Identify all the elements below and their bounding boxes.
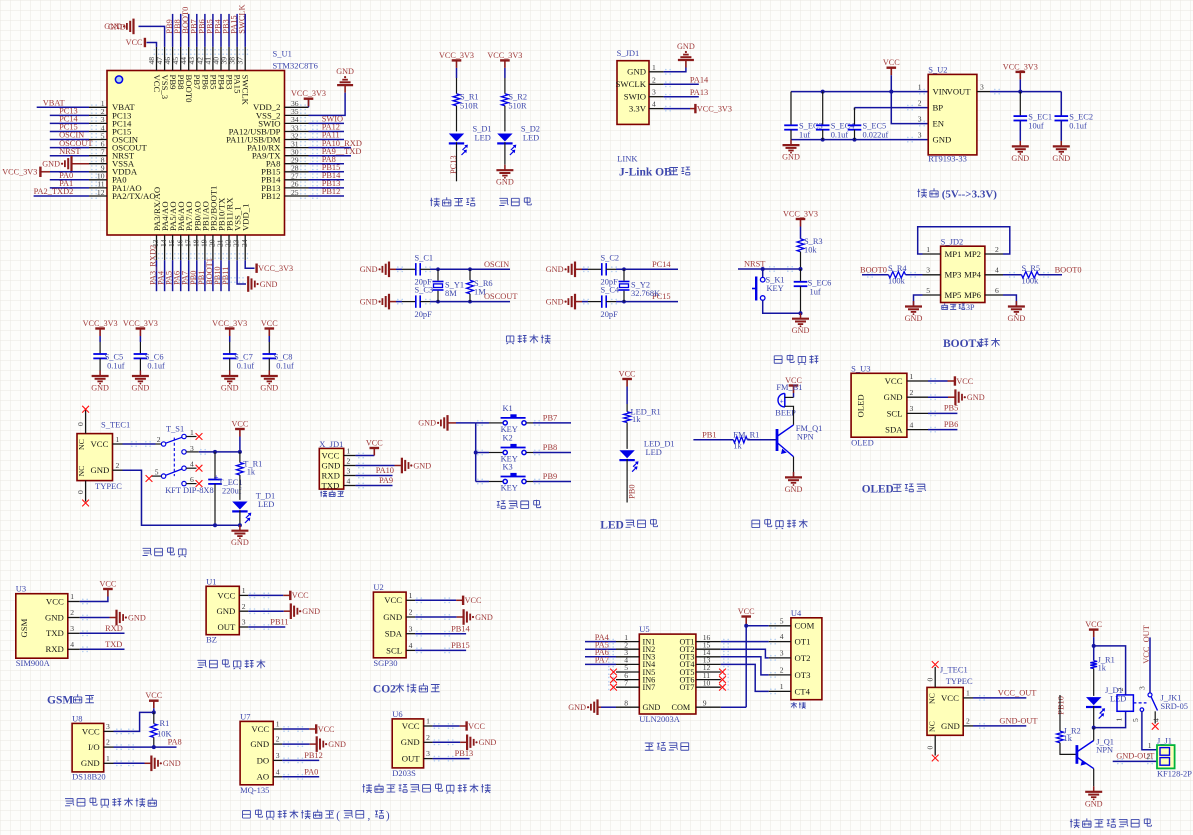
wire T_S1 pin3 to VCC rail xyxy=(186,451,199,453)
wire S_JD1 pin1 to GND xyxy=(664,68,686,72)
ground left of S_C1 xyxy=(388,262,390,278)
svg-text:GSM: GSM xyxy=(47,695,73,707)
pin 1 (IN1) of U5 xyxy=(616,641,639,643)
wire S_U3 pin4, net PB6 xyxy=(928,429,957,431)
svg-text:S_C4: S_C4 xyxy=(601,286,620,295)
wire U2 pin2 to GND xyxy=(415,616,457,618)
svg-text:LED: LED xyxy=(1110,695,1126,704)
wire from pin 43 of S_U1 top xyxy=(196,14,198,47)
svg-text:0.1uf: 0.1uf xyxy=(1069,121,1087,130)
svg-text:I/O: I/O xyxy=(88,742,100,752)
svg-text:VCC: VCC xyxy=(126,38,143,47)
power port VCC above S_C8 xyxy=(265,327,275,329)
svg-text:3: 3 xyxy=(780,649,784,658)
svg-text:PA0: PA0 xyxy=(304,767,318,776)
svg-text:GND: GND xyxy=(933,135,952,145)
junction S_EC5 bottom xyxy=(853,138,857,142)
wire rail to key K3 xyxy=(476,481,489,483)
svg-text:D203S: D203S xyxy=(392,768,416,778)
wire to U5 IN2 xyxy=(585,648,616,650)
svg-text:PB14: PB14 xyxy=(451,624,470,633)
wire from pin 40 of S_U1 top xyxy=(220,14,222,47)
wire U6 pin3, net PB13 xyxy=(433,758,470,760)
pin 22 (PB11/RX) of S_U1, bottom side xyxy=(228,235,230,260)
power port VCC at S_U1 pin 48 xyxy=(144,38,146,47)
svg-text:25: 25 xyxy=(291,188,299,197)
svg-text:VCC: VCC xyxy=(322,450,340,460)
component box S_U3 OLED xyxy=(851,373,907,437)
wire LED cathode to ground xyxy=(504,142,506,165)
svg-text:1M: 1M xyxy=(474,287,486,296)
pin 1 (VCC) of J_TEC1 xyxy=(963,697,973,699)
power port VCC_3V3 at S_U1 pin 9 VDDA xyxy=(39,167,41,177)
wire S_EC5 top to S_U2 BP pin2 xyxy=(854,108,856,110)
wire T_R1 to LED T_D1 xyxy=(239,475,241,500)
svg-text:2: 2 xyxy=(995,245,999,254)
wire U5 pin8 to GND xyxy=(601,706,616,708)
pin 36 (VDD_2) of S_U1, right side xyxy=(285,106,309,108)
svg-text:OLED: OLED xyxy=(856,394,866,417)
wire from pin 34 of S_U1 xyxy=(309,122,345,124)
svg-text:S_R2: S_R2 xyxy=(508,93,527,102)
capacitor S_C8 0.1uf xyxy=(263,353,277,355)
pin-1 indicator circle of S_U1 xyxy=(115,76,122,83)
svg-text:): ) xyxy=(386,810,390,822)
svg-text:4: 4 xyxy=(995,266,999,275)
resistor FM_R1 1k xyxy=(733,437,747,443)
svg-text:OT3: OT3 xyxy=(795,670,811,680)
power port VCC above R1 xyxy=(149,700,159,702)
wire S_C2 to PC14 xyxy=(606,268,616,270)
svg-text:VCC: VCC xyxy=(465,596,482,605)
svg-text:510R: 510R xyxy=(508,102,527,111)
svg-text:3: 3 xyxy=(106,722,110,731)
svg-text:10uf: 10uf xyxy=(1028,121,1044,130)
ground at S_U1 pin 8 VSSA xyxy=(70,156,72,172)
wire from pin 19 of S_U1 bottom xyxy=(204,260,206,291)
wire from pin 32 of S_U1 xyxy=(309,139,345,141)
pin 15 (PA5/AO) of S_U1, bottom side xyxy=(172,235,174,260)
svg-text:OUT: OUT xyxy=(217,622,236,632)
no-ERC cross at U5 OT6 xyxy=(719,676,726,683)
bottom ground rail of supply xyxy=(791,139,928,141)
svg-text:PB6: PB6 xyxy=(944,420,958,429)
svg-text:GND: GND xyxy=(941,721,960,731)
pin 3 (MP3) of S_JD2 xyxy=(923,274,941,276)
relay switch blade xyxy=(1151,697,1158,711)
component box S_U2 RT9193-33 xyxy=(928,74,977,154)
svg-text:4: 4 xyxy=(780,632,784,641)
pin 4 (3.3V) of S_JD1 xyxy=(649,108,664,110)
power port VCC_3V3 above S_C7 xyxy=(225,327,235,329)
svg-text:GND: GND xyxy=(627,67,646,77)
svg-text:3: 3 xyxy=(276,751,280,760)
svg-text:PB15: PB15 xyxy=(451,641,470,650)
wire EN row: vertical from input rail down and right to pin3 xyxy=(891,92,928,124)
wire U1 pin2 to GND xyxy=(248,610,283,612)
svg-text:VCC: VCC xyxy=(261,319,278,328)
svg-text:0.1uf: 0.1uf xyxy=(831,130,849,139)
power port VCC above supply input xyxy=(887,66,897,68)
wire U8 VCC pin up to VCC junction xyxy=(114,712,154,731)
pin 1 (VCC) of U1 xyxy=(239,594,248,596)
svg-text:LED: LED xyxy=(258,500,274,509)
wire from pin 17 of S_U1 bottom xyxy=(188,260,190,291)
svg-text:S_TEC1: S_TEC1 xyxy=(101,420,130,430)
svg-text:3P: 3P xyxy=(966,303,975,312)
svg-text:S_EC2: S_EC2 xyxy=(1069,112,1093,121)
wire LED_D1 cathode down, net PB0 xyxy=(626,459,628,503)
svg-text:S_C3: S_C3 xyxy=(415,286,434,295)
wire VCC down to branch junction xyxy=(1093,637,1095,646)
pin 26 (PB13) of S_U1, right side xyxy=(285,187,309,189)
ground below S_C7 xyxy=(229,371,231,377)
junction at collector/coil return xyxy=(1092,726,1096,730)
caption: power light xyxy=(499,198,508,205)
svg-text:(5V-->3.3V): (5V-->3.3V) xyxy=(942,189,998,201)
wire S_R3 to NRST node xyxy=(800,252,802,269)
power port VCC above J_R1 xyxy=(1089,628,1099,630)
pin 44 (BOOT0) of S_U1, top side xyxy=(188,47,190,71)
svg-text:GND: GND xyxy=(1052,154,1070,163)
power port VCC_3V3 above S_R1 xyxy=(452,59,462,61)
wire NRST horizontal xyxy=(738,268,801,270)
svg-text:3: 3 xyxy=(980,83,984,92)
pin 4 (IN4) of U5 xyxy=(616,663,639,665)
pin 20 (PB2/BOOT1) of S_U1, bottom side xyxy=(212,235,214,260)
svg-text:U4: U4 xyxy=(791,608,802,618)
svg-text:OSCOUT: OSCOUT xyxy=(484,292,518,301)
caption: infrared obstacle avoidance module xyxy=(197,660,206,667)
svg-text:5: 5 xyxy=(780,616,784,625)
svg-text:1: 1 xyxy=(190,428,194,437)
ground below power circuit xyxy=(239,525,241,531)
wire U3 pin3, net RXD xyxy=(80,632,125,634)
wire key K3 to net PB9 xyxy=(526,481,533,483)
pin 34 (SWIO) of S_U1, right side xyxy=(285,122,309,124)
svg-text:GND: GND xyxy=(884,392,903,402)
power port VCC above stepper connector xyxy=(741,615,751,617)
svg-text:GND: GND xyxy=(163,759,181,768)
wire from pin 13 of S_U1 bottom xyxy=(156,260,158,291)
power port VCC_3V3 at S_U1 pin 24 xyxy=(255,264,257,273)
wire from pin 15 of S_U1 bottom xyxy=(172,260,174,291)
power port VCC above X_JD1 xyxy=(370,447,380,449)
capacitor S_C7 0.1uf xyxy=(223,353,237,355)
T_S1 pin1 stub with no-ERC cross xyxy=(186,436,196,438)
power port VCC_3V3 above S_R3 xyxy=(796,218,806,220)
svg-text:K1: K1 xyxy=(503,404,513,413)
wire from pin 37 of S_U1 top xyxy=(244,14,246,47)
svg-text:GND: GND xyxy=(360,297,378,306)
ground at U3 pin2 (sideways) xyxy=(115,610,117,626)
pin 4 (MP4) of S_JD2 xyxy=(985,274,1003,276)
svg-text:OT2: OT2 xyxy=(795,653,811,663)
wire U2 pin1 to VCC xyxy=(415,599,456,601)
svg-text:4: 4 xyxy=(347,477,351,486)
svg-text:GND: GND xyxy=(1011,154,1029,163)
svg-text:1k: 1k xyxy=(632,415,641,424)
wire to pin 6 of S_U1 xyxy=(50,147,89,149)
svg-text:PB11: PB11 xyxy=(221,267,230,285)
pin 5 (OSCIN) of S_U1, left side xyxy=(89,139,107,141)
svg-text:3: 3 xyxy=(910,404,914,413)
svg-text:EN: EN xyxy=(933,119,945,129)
svg-text:RXD: RXD xyxy=(45,644,63,654)
svg-text:BOOTx: BOOTx xyxy=(943,338,982,350)
pin 21 (PB10/TX) of S_U1, bottom side xyxy=(220,235,222,260)
wire U8 I/O pin, net PA8 xyxy=(114,746,177,748)
crystal S_Y1 8M xyxy=(436,267,440,271)
component box U7 MQ-135 xyxy=(240,721,273,784)
svg-text:OLED: OLED xyxy=(851,437,874,447)
pin 1 (VCC) of U6 xyxy=(424,725,433,727)
pin 3 (IN3) of U5 xyxy=(616,656,639,658)
svg-text:VCC_3V3: VCC_3V3 xyxy=(487,51,522,60)
pin 2 (GND) of U6 xyxy=(424,741,433,743)
svg-text:U3: U3 xyxy=(16,584,26,594)
svg-text:0: 0 xyxy=(76,490,85,494)
wire U3 pin2 to GND xyxy=(80,617,110,619)
LED J_D1 xyxy=(1086,697,1101,705)
svg-text:U1: U1 xyxy=(206,576,216,586)
svg-text:GND: GND xyxy=(1085,799,1103,808)
svg-text:CT4: CT4 xyxy=(795,686,811,696)
svg-text:1: 1 xyxy=(910,372,914,381)
pin 12 (PA2/TX/AO) of S_U1, left side xyxy=(89,195,107,197)
svg-text:K3: K3 xyxy=(503,463,513,472)
power port VCC above buzzer xyxy=(789,384,799,386)
svg-text:LINK: LINK xyxy=(617,154,638,164)
transistor FM_Q1 NPN xyxy=(776,429,779,451)
svg-text:4: 4 xyxy=(190,460,194,469)
power port VCC_3V3 at S_JD1 pin4 xyxy=(694,104,696,113)
pin 6 (OSCOUT) of S_U1, left side xyxy=(89,147,107,149)
svg-text:S_D1: S_D1 xyxy=(473,125,492,134)
pin 1 (VCC) of S_U3 xyxy=(907,380,928,382)
svg-text:VCC: VCC xyxy=(99,580,116,589)
svg-text:GND: GND xyxy=(328,740,346,749)
svg-text:VCC: VCC xyxy=(468,722,485,731)
pin 3 (OUT) of U6 xyxy=(424,758,433,760)
pin 3 (SCL) of S_U3 xyxy=(907,412,928,414)
caption: stepper motor xyxy=(645,743,654,750)
capacitor S_EC4 0.1uf xyxy=(822,92,824,126)
no-ERC cross at U5 OT7 xyxy=(719,684,726,691)
capacitor S_C1 20pF xyxy=(415,263,417,275)
wire J_D1 to collector junction xyxy=(1093,706,1095,728)
LED LED_D1 xyxy=(619,450,634,458)
svg-text:2: 2 xyxy=(409,608,413,617)
svg-text:S_D2: S_D2 xyxy=(521,125,540,134)
wire X_JD1 pin4, net PA9 xyxy=(356,485,393,487)
pin 3 (RXD) of X_JD1 xyxy=(344,475,356,477)
wire U3 pin1 to VCC xyxy=(80,597,108,602)
pin 38 (PA15) of S_U1, top side xyxy=(236,47,238,71)
junction at U4 COM tap xyxy=(744,624,748,628)
pin 2 (GND) of J_TEC1 xyxy=(963,725,973,727)
ground left of S_C2 xyxy=(574,262,576,278)
svg-text:100k: 100k xyxy=(1022,276,1040,285)
caption: relay control circuit xyxy=(1070,819,1080,828)
svg-text:2: 2 xyxy=(652,75,656,84)
svg-text:PC13: PC13 xyxy=(449,155,458,174)
svg-text:SWIO: SWIO xyxy=(624,92,646,102)
wire to U5 IN1 xyxy=(585,641,616,643)
svg-text:VCC: VCC xyxy=(402,721,420,731)
svg-text:GND: GND xyxy=(231,538,249,547)
svg-text:VCC_3V3: VCC_3V3 xyxy=(439,51,474,60)
pin 2 (PC13) of S_U1, left side xyxy=(89,114,107,116)
wire S_U3 pin1 to VCC xyxy=(928,380,948,382)
svg-text:4: 4 xyxy=(1152,718,1161,722)
svg-text:VCC: VCC xyxy=(885,376,903,386)
svg-text:S_U1: S_U1 xyxy=(273,49,292,59)
svg-text:S_EC5: S_EC5 xyxy=(863,121,887,130)
svg-text:PA8: PA8 xyxy=(168,738,182,747)
wire S_C8 to ground xyxy=(268,358,270,370)
resistor J_R1 1k xyxy=(1093,646,1095,661)
junction at S_EC4 top xyxy=(821,90,825,94)
svg-text:SWCLK: SWCLK xyxy=(241,75,251,106)
svg-text:20pF: 20pF xyxy=(415,310,433,319)
svg-text:U2: U2 xyxy=(373,582,383,592)
ground below MP6 xyxy=(1015,301,1017,307)
caption: ambient temperature acquisition module xyxy=(65,799,74,806)
pin 31 (PA10/RX) of S_U1, right side xyxy=(285,147,309,149)
svg-text:CO2: CO2 xyxy=(373,684,396,696)
wire U1 pin3, net PB11 xyxy=(248,626,285,628)
svg-text:X_JD1: X_JD1 xyxy=(319,439,343,449)
connector S_JD1 LINK box xyxy=(617,61,649,125)
svg-text:SGP30: SGP30 xyxy=(373,658,397,668)
component box U5 ULN2003A xyxy=(639,634,696,714)
capacitor S_EC6 1uf xyxy=(800,269,802,282)
svg-text:6: 6 xyxy=(190,475,194,484)
svg-text:4: 4 xyxy=(910,420,914,429)
wire J_R2 to base xyxy=(1060,743,1076,755)
svg-text:1: 1 xyxy=(426,717,430,726)
ground above S_JD1 pin1 xyxy=(685,60,687,68)
svg-text:1: 1 xyxy=(926,245,930,254)
wire U5 OT1 to U4 pin4 xyxy=(721,641,769,643)
pin 5 (MP5) of S_JD2 xyxy=(923,294,941,296)
pin 4 (SCL) of U2 xyxy=(406,649,415,651)
svg-text:1: 1 xyxy=(242,586,246,595)
svg-text:3.3V: 3.3V xyxy=(629,104,647,114)
pin 1 (VCC) of U3 xyxy=(68,601,80,603)
T_S1 pin4 stub with no-ERC cross xyxy=(186,467,196,469)
svg-text:MP1: MP1 xyxy=(945,249,962,259)
svg-text:+: + xyxy=(780,397,784,405)
pin 4 (SDA) of S_U3 xyxy=(907,429,928,431)
svg-text:2: 2 xyxy=(276,735,280,744)
wire input rail to S_U2 VIN xyxy=(791,91,928,93)
svg-text:6: 6 xyxy=(995,286,999,295)
svg-text:BOOT0: BOOT0 xyxy=(1055,266,1082,275)
svg-text:GND: GND xyxy=(216,606,235,616)
pin 6 (IN6) of U5 xyxy=(616,679,639,681)
caption: air quality detection module xyxy=(243,811,251,818)
svg-text:3: 3 xyxy=(426,749,430,758)
svg-text:VCC_3V3: VCC_3V3 xyxy=(1003,62,1038,71)
resistor T_R1 1k xyxy=(239,452,241,463)
pin 13 (PA3/RX/AO) of S_U1, bottom side xyxy=(156,235,158,260)
pin 43 (PB7) of S_U1, top side xyxy=(196,47,198,71)
svg-text:NPN: NPN xyxy=(1096,745,1113,754)
svg-text:VCC: VCC xyxy=(292,591,309,600)
dashed link coil to switch xyxy=(1133,702,1146,704)
pin 25 (PB12) of S_U1, right side xyxy=(285,195,309,197)
svg-text:J_J1: J_J1 xyxy=(1157,737,1172,746)
relay J_JK1 coil box xyxy=(1117,695,1133,711)
svg-text:U8: U8 xyxy=(72,713,82,723)
svg-text:DO: DO xyxy=(257,755,270,765)
svg-text:COM: COM xyxy=(672,703,691,712)
pin 45 (PB8) of S_U1, top side xyxy=(180,47,182,71)
junction at VCC/input rail xyxy=(889,90,893,94)
svg-text:3: 3 xyxy=(918,131,922,140)
pin 14 (PA4/AO) of S_U1, bottom side xyxy=(164,235,166,260)
wire from pin 45 of S_U1 top xyxy=(180,14,182,47)
svg-text:4: 4 xyxy=(409,641,413,650)
svg-text:S_EC1: S_EC1 xyxy=(1028,112,1052,121)
wire resistor to LED S_D2 xyxy=(504,106,506,132)
pin 2 (IN2) of U5 xyxy=(616,648,639,650)
svg-text:3: 3 xyxy=(70,624,74,633)
ground below S_C5 xyxy=(99,371,101,377)
pin 2 (SWCLK) of S_JD1 xyxy=(649,83,664,85)
resistor J_R2 1k xyxy=(1057,731,1064,743)
svg-text:S_C6: S_C6 xyxy=(145,353,164,362)
svg-text:K2: K2 xyxy=(503,434,513,443)
svg-text:S_C5: S_C5 xyxy=(105,353,124,362)
pin 19 (PB1/AO) of S_U1, bottom side xyxy=(204,235,206,260)
pin 24 (VDD_1) of S_U1, bottom side xyxy=(244,235,246,260)
svg-text:IN7: IN7 xyxy=(643,683,656,692)
wire relay pin5 to J_J1 pin1 xyxy=(1142,712,1157,750)
wire VCC down to input rail xyxy=(890,75,892,91)
svg-text:GND: GND xyxy=(782,153,800,162)
ground at X_JD1 pin2 (sideways) xyxy=(401,458,403,474)
wire from pin 44 of S_U1 top xyxy=(188,14,190,47)
svg-text:BZ: BZ xyxy=(206,635,217,645)
resistor S_R1 510R xyxy=(453,94,460,106)
pin 23 (VSS_1) of S_U1, bottom side xyxy=(236,235,238,260)
svg-text:3: 3 xyxy=(242,618,246,627)
wire S_C3 to OSCOUT xyxy=(420,301,430,303)
svg-text:STM32C8T6: STM32C8T6 xyxy=(273,61,318,71)
pin 48 (VCC) of S_U1, top side xyxy=(156,47,158,71)
wire to U5 IN4 xyxy=(585,663,616,665)
svg-text:S_R4: S_R4 xyxy=(888,264,907,273)
junction S_EC4 bottom xyxy=(821,138,825,142)
svg-text:NRST: NRST xyxy=(744,259,765,268)
pin 3 (VCC) of U8 xyxy=(104,730,114,732)
svg-text:RXD: RXD xyxy=(322,470,340,480)
ground feeding key circuit xyxy=(446,415,448,431)
pin 1 (CT4) of U4 xyxy=(769,690,791,692)
bottom pin 0 of J_TEC1 with no-ERC cross xyxy=(934,735,936,755)
capacitor S_C6 0.1uf xyxy=(134,353,148,355)
svg-text:GND: GND xyxy=(45,612,64,622)
power port VCC_3V3 above S_C5 xyxy=(95,327,105,329)
svg-text:VCC: VCC xyxy=(91,439,109,449)
svg-text:1: 1 xyxy=(106,754,110,763)
relay switch pivot xyxy=(1148,693,1152,697)
svg-text:DS18B20: DS18B20 xyxy=(72,772,106,782)
pin 18 (PB0/AO) of S_U1, bottom side xyxy=(196,235,198,260)
